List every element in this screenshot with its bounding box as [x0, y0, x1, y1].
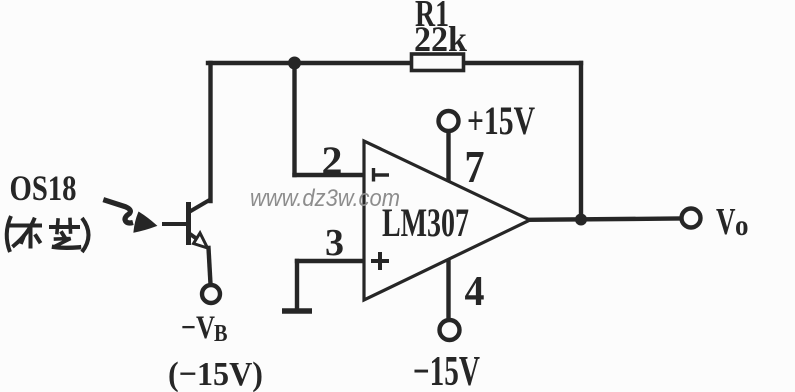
- transistor Q1 collector diagonal: [189, 200, 210, 212]
- wire ground drop vertical: [295, 261, 299, 309]
- terminal +15V circle: [439, 111, 459, 131]
- transistor Q1 emitter arrowhead: [194, 233, 208, 248]
- ground: [282, 308, 312, 314]
- wire output horizontal: [529, 219, 681, 220]
- terminal -VB circle: [202, 285, 220, 303]
- op-amp non-inverting marker: [371, 252, 389, 270]
- wire top feedback horizontal: [208, 61, 581, 65]
- svg-text:(−15V): (−15V): [168, 356, 263, 392]
- label (paren left of 东芝: [7, 216, 11, 252]
- svg-text:+15V: +15V: [467, 98, 535, 143]
- transistor Q1 emitter diagonal: [190, 234, 197, 239]
- wire emitter vertical: [209, 248, 211, 284]
- glyph 芝: [51, 220, 79, 248]
- wire non-inverting input horizontal pin 3: [297, 259, 364, 263]
- svg-text:www.dz3w.com: www.dz3w.com: [250, 185, 400, 212]
- svg-text:3: 3: [325, 222, 344, 264]
- wire inverting input vertical from junction: [292, 63, 296, 175]
- svg-text:o: o: [735, 209, 749, 242]
- wire pin 4 vertical: [446, 260, 450, 319]
- svg-text:22k: 22k: [414, 19, 467, 59]
- svg-text:B: B: [214, 321, 228, 347]
- label paren right of 东芝: [82, 218, 89, 252]
- wire inverting input horizontal pin 2: [295, 173, 365, 177]
- op-amp inverting marker: [372, 168, 389, 182]
- wire right feedback vertical: [579, 63, 583, 220]
- svg-text:2: 2: [322, 138, 343, 183]
- svg-text:OS18: OS18: [10, 168, 77, 208]
- resistor R1 body: [412, 54, 464, 71]
- transistor Q1 base bar: [186, 202, 191, 245]
- svg-text:7: 7: [465, 141, 485, 192]
- transistor Q1 base lead: [162, 222, 186, 226]
- terminal -15V circle: [440, 320, 460, 340]
- op-amp U1 triangle: [364, 141, 530, 300]
- terminal Vo circle: [682, 209, 701, 228]
- node junction top (inverting tap): [288, 57, 301, 70]
- wire left vertical to transistor collector: [208, 63, 212, 201]
- wire pin 7 vertical: [446, 132, 450, 181]
- node junction output: [575, 214, 587, 226]
- svg-text:4: 4: [465, 269, 485, 315]
- svg-text:V: V: [716, 201, 736, 243]
- svg-text:−V: −V: [181, 310, 215, 346]
- light arrow squiggle: [103, 200, 133, 223]
- glyph 东: [12, 220, 41, 247]
- light arrow head: [135, 213, 156, 232]
- svg-text:−15V: −15V: [413, 349, 480, 392]
